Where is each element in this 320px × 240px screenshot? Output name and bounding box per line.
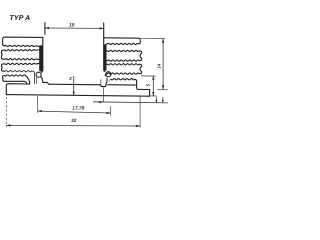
dim 12,7 line <box>162 39 164 90</box>
right web root fill <box>104 44 107 71</box>
right tower underside <box>108 84 136 86</box>
dim 5 ext top <box>141 75 156 77</box>
left boss outline <box>41 77 50 85</box>
dim 17,78 line <box>38 111 111 113</box>
dim 15 extension tick left <box>44 22 46 35</box>
svg-text:15: 15 <box>69 22 75 28</box>
left screw channel circle <box>36 72 41 77</box>
right fin3 <box>139 64 142 73</box>
dim 17,78 arrows <box>38 110 42 112</box>
dim 5 arrows <box>152 76 154 80</box>
dim chain tick b <box>162 97 164 103</box>
dim 3 arrow <box>73 91 75 95</box>
left slot1 end arc <box>36 46 42 50</box>
dim 17,78 ext left <box>37 96 39 113</box>
svg-text:14: 14 <box>156 63 161 68</box>
left fin2 <box>2 50 6 59</box>
left fin1 bottom wavy <box>5 45 35 46</box>
dim 32 line <box>6 124 140 127</box>
svg-text:32: 32 <box>71 118 77 124</box>
right slot1 end arc <box>105 44 108 51</box>
gap floor between towers <box>50 83 101 86</box>
base bottom edge <box>6 95 149 97</box>
dim 12,7 ext bottom <box>157 89 168 91</box>
left web outer edge <box>42 37 43 72</box>
dim 32 dashed ext left <box>5 97 7 127</box>
left fin3 <box>2 64 6 71</box>
right tower top edge <box>104 38 141 44</box>
left slot2 end arc <box>36 59 42 64</box>
left boss throat line <box>35 77 37 84</box>
dim 12,7 ext top <box>141 37 165 39</box>
right slot2 end arc <box>105 61 108 65</box>
dim chain arrow <box>99 101 103 103</box>
right fin1 bottom wavy <box>108 43 139 44</box>
right fin4 wavy top <box>111 79 137 81</box>
right slot3 end arc <box>105 74 107 76</box>
left tower top edge and corner <box>3 37 43 46</box>
dim 32 arrows <box>6 124 10 126</box>
dim 15 arrows <box>45 27 49 29</box>
dim chain extension <box>103 88 105 102</box>
dim chain line <box>93 102 168 103</box>
svg-text:5: 5 <box>146 84 151 87</box>
dim 12,7 arrows <box>162 39 164 43</box>
svg-text:17,78: 17,78 <box>72 106 84 112</box>
dim 32 ext right <box>139 96 141 127</box>
dim chain tick a <box>155 97 157 103</box>
left fin4 <box>2 76 4 82</box>
right fin2 <box>139 51 142 61</box>
dim 15 line <box>45 27 104 29</box>
left web root fill <box>39 45 43 71</box>
right boss with screw channel <box>106 72 111 77</box>
dim 17,78 ext right <box>110 106 112 115</box>
right step to flange <box>137 81 150 96</box>
dim 5 line <box>152 76 154 96</box>
dim 5 ext bottom <box>150 95 157 97</box>
base top edge left <box>6 84 29 95</box>
svg-text:3: 3 <box>69 76 72 81</box>
right web and 15-dim extension <box>104 23 105 72</box>
dim 3 tick <box>73 76 75 95</box>
svg-text:TYP A: TYP A <box>10 15 31 22</box>
